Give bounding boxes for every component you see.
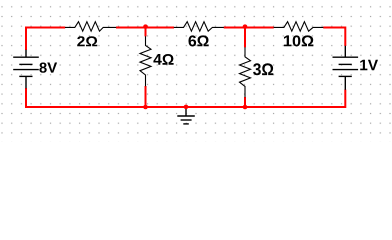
resistor R1 2ohm [65, 22, 116, 32]
wire 4ohm bottom stub [145, 86, 147, 107]
node B junction dot [243, 24, 248, 29]
wire 6ohm to node B [224, 27, 274, 29]
label 4ohm [153, 54, 173, 65]
junction dot 3ohm bottom [243, 105, 248, 110]
wire 3ohm bottom stub [244, 97, 246, 107]
label 2ohm [77, 36, 97, 46]
wire 2ohm to node A [116, 27, 146, 29]
wire bottom rail [26, 88, 345, 107]
label 1V [360, 60, 378, 70]
label 8V [39, 62, 57, 72]
ground [177, 107, 195, 124]
resistor R5 3ohm (vertical) [240, 47, 251, 97]
wire 10ohm to top-right corner down to battery [323, 28, 345, 47]
wire node A to 6ohm [146, 27, 175, 29]
wire node B stub down [244, 27, 246, 48]
wire top-left corner to 2ohm [26, 28, 65, 51]
resistor R4 4ohm (vertical) [140, 36, 151, 86]
wire node A stub down [145, 27, 147, 37]
junction dot ground [184, 105, 189, 110]
resistor R2 6ohm [174, 22, 224, 32]
resistor R3 10ohm [274, 22, 324, 32]
battery V1 8V [13, 50, 39, 89]
label 3ohm [253, 63, 273, 75]
node A junction dot [143, 24, 148, 29]
label 6ohm [188, 35, 208, 46]
junction dot 4ohm bottom [143, 105, 148, 110]
battery V2 1V [333, 46, 359, 90]
label 10ohm [284, 35, 314, 46]
